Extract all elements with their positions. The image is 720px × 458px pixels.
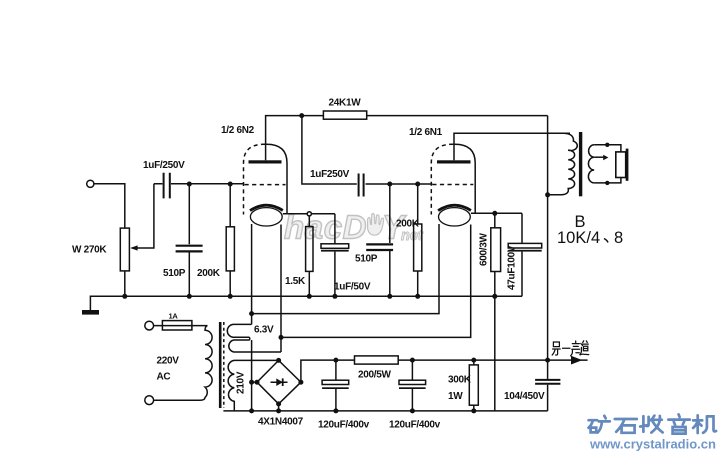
svg-text:AC: AC: [157, 372, 171, 383]
potentiometer W 270K: [120, 228, 129, 271]
capacitor C8 120uF/400v: [411, 360, 413, 380]
heater line A: [249, 311, 254, 316]
enumeration comma (CJK): [604, 239, 608, 243]
bridge rectifier 4X1N4007: [257, 360, 301, 404]
char 机: [693, 415, 716, 433]
svg-text:47uF100V: 47uF100V: [507, 245, 518, 290]
node grid2 dots: [387, 182, 392, 187]
bridge bottom stub: [278, 404, 280, 411]
capacitor C6 47uF100V (cathode bypass 2): [521, 213, 523, 243]
svg-text:8: 8: [614, 229, 623, 247]
capacitor C4 510P (stage 2): [389, 184, 391, 243]
tube U1 envelope (right solid): [265, 144, 287, 213]
svg-text:1A: 1A: [169, 312, 179, 321]
node OPT primary bottom dot: [545, 192, 550, 197]
line to other channel with arrow: [548, 359, 588, 361]
svg-text:210V: 210V: [236, 371, 247, 394]
char 石: [615, 419, 637, 433]
svg-text:1/2 6N2: 1/2 6N2: [221, 125, 255, 136]
wire input to potentiometer top: [94, 184, 125, 228]
node A (plate1/24K/coupling) dot: [299, 113, 304, 118]
capacitor C1 1uF/250V (input coupling): [164, 173, 170, 199]
char 收: [640, 416, 662, 433]
tube U1 grid (dashed): [245, 184, 286, 186]
secondary bottom wire: [594, 178, 621, 183]
PSU negative rail: [223, 410, 547, 412]
power transformer core: [219, 322, 222, 408]
AC terminal upper: [145, 321, 154, 330]
svg-text:24K1W: 24K1W: [329, 98, 362, 109]
heater riser 6N2 right pin: [280, 225, 282, 353]
tube U1 plate bar: [249, 160, 282, 163]
potentiometer wiper arrowhead: [130, 245, 137, 250]
input jack J1: [87, 180, 94, 187]
wire pot bottom to ground rail: [124, 271, 126, 296]
svg-text:6.3V: 6.3V: [254, 325, 274, 336]
output transformer secondary winding: [588, 145, 594, 183]
svg-text:W 270K: W 270K: [72, 245, 107, 256]
char 声: [571, 341, 580, 356]
heater riser 6N2 left pin: [251, 224, 253, 324]
svg-text:104/450V: 104/450V: [504, 391, 545, 402]
svg-text:200K: 200K: [197, 268, 221, 279]
wire coupling cap to 6N1 grid: [366, 183, 433, 185]
svg-text:net: net: [401, 228, 424, 244]
secondary tap wire: [594, 156, 603, 158]
svg-text:120uF/400v: 120uF/400v: [318, 420, 370, 431]
svg-text:1uF/250V: 1uF/250V: [143, 160, 185, 171]
svg-text:1W: 1W: [448, 391, 463, 402]
tube U2 grid (dashed): [432, 184, 473, 186]
svg-text:1uF/50V: 1uF/50V: [334, 282, 371, 293]
bridge inner diode: [271, 381, 288, 383]
resistor R5 600/3W (cathode 2): [471, 212, 522, 214]
capacitor C9 104/450V: [547, 360, 549, 379]
watermark hand: [368, 214, 384, 236]
node grid1-junction dots: [187, 182, 192, 187]
node dots on ground rail: [122, 294, 127, 299]
capacitor C5 1uF/50V (cathode bypass 1): [334, 214, 336, 244]
char 另: [552, 342, 560, 355]
capacitor C7 120uF/400v: [335, 360, 337, 380]
tube U2 plate lead: [454, 133, 570, 160]
ground rail: [90, 296, 522, 310]
watermark crystalradio 矿石收音机 (drawn strokes): [589, 414, 717, 433]
watermark hacDIY.net: [284, 209, 424, 246]
svg-text:1uF250V: 1uF250V: [310, 169, 350, 180]
svg-text:10K/4: 10K/4: [557, 229, 600, 247]
tube U1 cathode arc: [250, 205, 283, 210]
wire 24K1W to B+ drop: [367, 115, 548, 117]
resistor R1 200K (grid leak 1): [229, 184, 231, 227]
char 音: [668, 414, 689, 433]
label another-channel 另一声道 (drawn strokes): [552, 341, 589, 356]
char 一: [563, 347, 570, 349]
resistor R6 200/5W: [355, 356, 399, 364]
speaker LS1: [616, 152, 626, 178]
svg-text:510P: 510P: [163, 268, 186, 279]
capacitor C3 1uF250V (interstage coupling): [359, 174, 364, 197]
fuse F1 1A: [154, 325, 208, 327]
tube U2 plate bar: [437, 160, 471, 163]
resistor R3 200K (grid leak 2): [417, 184, 419, 224]
tube U2 bottom ellipse: [439, 208, 471, 226]
secondary top wire: [594, 145, 621, 152]
svg-text:200/5W: 200/5W: [358, 370, 392, 381]
tube U2 envelope (left dashed): [431, 144, 453, 214]
svg-text:www.crystalradio.cn: www.crystalradio.cn: [589, 437, 716, 452]
svg-text:200K: 200K: [396, 219, 420, 230]
B+ drop from 24K line to B+ rail: [547, 116, 549, 361]
svg-text:600/3W: 600/3W: [479, 232, 490, 266]
tube U2 envelope (right solid): [453, 144, 475, 213]
label B 10K/4,8: [557, 213, 623, 247]
wire coupling branch down: [302, 116, 357, 184]
210V HV winding: [228, 360, 278, 411]
resistor R7 300K 1W: [473, 360, 475, 365]
AC terminal lower: [145, 396, 154, 405]
tube U2 cathode arc: [438, 205, 471, 210]
char 道: [580, 341, 589, 355]
B+ rail from bridge: [301, 360, 548, 382]
resistor R4 1.5K (cathode 1): [283, 213, 335, 215]
ground symbol: [82, 310, 99, 315]
output transformer B primary winding: [548, 133, 578, 195]
heater line B: [279, 335, 284, 340]
capacitor C2 510P: [188, 184, 190, 244]
6.3V filament winding: [227, 324, 281, 352]
svg-text:1.5K: 1.5K: [285, 276, 306, 287]
svg-text:510P: 510P: [355, 254, 378, 265]
svg-text:4X1N4007: 4X1N4007: [258, 417, 304, 428]
char 矿: [589, 416, 610, 433]
tube U1 plate lead: [266, 116, 302, 161]
tube U1 envelope (left dashed): [244, 144, 266, 214]
wire ground rail to PSU negative: [494, 296, 496, 411]
tube U1 bottom ellipse: [250, 208, 282, 226]
resistor R2 24K1W: [302, 115, 324, 117]
svg-text:120uF/400v: 120uF/400v: [389, 420, 441, 431]
output transformer core: [579, 132, 582, 196]
power transformer T1 primary winding: [200, 326, 212, 401]
svg-text:1/2 6N1: 1/2 6N1: [409, 127, 443, 138]
DC negative drop from bridge: [251, 340, 253, 411]
svg-text:300K: 300K: [448, 375, 472, 386]
svg-text:220V: 220V: [157, 356, 180, 367]
